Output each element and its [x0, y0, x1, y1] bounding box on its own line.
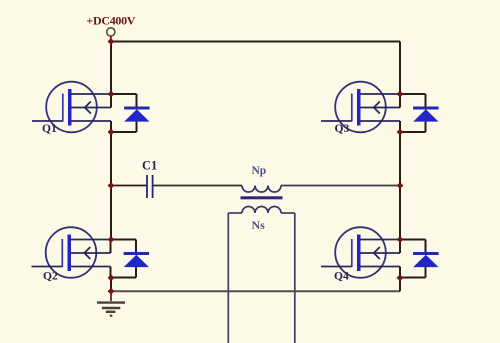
junction: Q2 source node: [108, 274, 115, 281]
wire: secondary left top: [228, 212, 242, 214]
wire: secondary right top: [281, 212, 295, 214]
svg-text:Q4: Q4: [334, 271, 349, 283]
transistor Q4: [321, 227, 400, 278]
terminal (+DC400V input): [107, 28, 115, 39]
transistor Q3: [321, 82, 400, 133]
junction: Q3 drain node: [397, 91, 404, 98]
svg-text:Q3: Q3: [335, 123, 350, 135]
ground: [97, 291, 125, 316]
junction: Q4 drain node: [397, 236, 404, 243]
wire: bottom rail: [111, 290, 400, 292]
wire: C1 node to C1: [111, 185, 146, 187]
junction: Q1 source node: [108, 129, 115, 136]
wire: C1 to transformer primary: [153, 185, 242, 187]
wire: left rail middle (Q1 source to C1 node): [110, 132, 112, 240]
transformer core: [241, 196, 283, 199]
junction: Q4 source node: [397, 274, 404, 281]
wire: right rail top: [399, 42, 401, 95]
diode D2 (body diode of Q2): [111, 240, 150, 278]
svg-text:Q1: Q1: [42, 123, 57, 135]
diode D1 (body diode of Q1): [111, 94, 150, 132]
svg-text:+DC400V: +DC400V: [86, 13, 135, 27]
wire: secondary left side: [227, 213, 229, 343]
junction: ground node: [108, 288, 115, 295]
junction: right bridge midpoint: [397, 182, 404, 189]
diode D3 (body diode of Q3): [400, 94, 439, 132]
wire: left rail bottom (Q2 source to ground node): [110, 278, 112, 291]
wire: bottom rail right riser: [399, 278, 401, 291]
junction: C1 node (left bridge midpoint): [108, 182, 115, 189]
wire: secondary right side: [294, 213, 296, 343]
capacitor C1: [147, 175, 153, 198]
junction: DC input node: [108, 38, 115, 45]
wire: transformer primary to right mid node: [281, 185, 400, 187]
svg-text:C1: C1: [142, 158, 157, 172]
transistor Q2: [32, 227, 111, 278]
diode D4 (body diode of Q4): [400, 240, 439, 278]
wire: left rail top: [110, 42, 112, 95]
svg-text:Np: Np: [252, 165, 267, 177]
transistor Q1: [32, 82, 111, 133]
junction: Q2 drain node: [108, 236, 115, 243]
svg-text:Q2: Q2: [43, 271, 58, 283]
inductor: transformer primary winding Np: [242, 186, 281, 193]
junction: Q3 source node: [397, 129, 404, 136]
wire: right rail middle (Q3 source to right mid node): [399, 132, 401, 240]
svg-text:Ns: Ns: [252, 218, 266, 232]
inductor: transformer secondary winding Ns: [242, 207, 281, 213]
junction: Q1 drain node: [108, 91, 115, 98]
wire: top rail: [111, 41, 400, 43]
